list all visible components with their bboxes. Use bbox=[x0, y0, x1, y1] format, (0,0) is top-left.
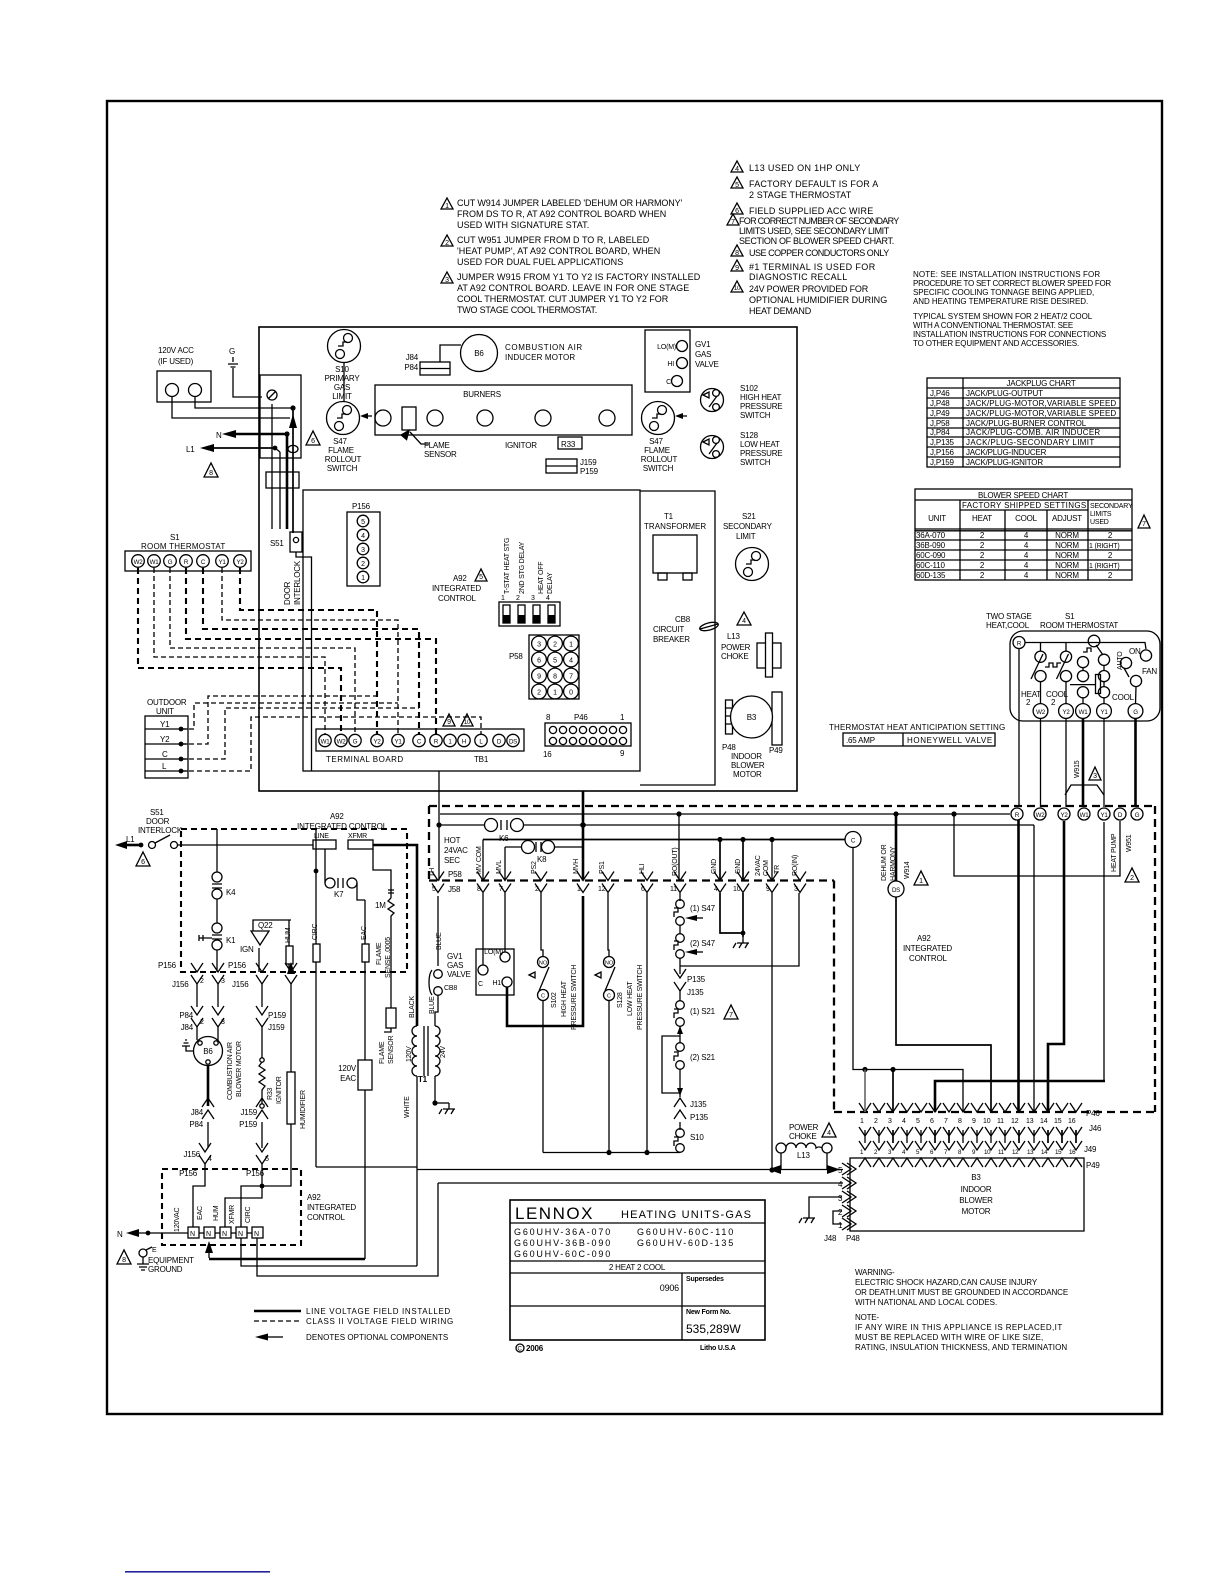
svg-text:ROLLOUT: ROLLOUT bbox=[641, 455, 678, 464]
svg-text:0: 0 bbox=[569, 690, 573, 697]
svg-text:3: 3 bbox=[445, 277, 449, 284]
svg-text:NORM: NORM bbox=[1055, 561, 1079, 570]
svg-text:ELECTRIC SHOCK HAZARD,CAN CAUS: ELECTRIC SHOCK HAZARD,CAN CAUSE INJURY bbox=[855, 1278, 1038, 1287]
svg-text:6: 6 bbox=[141, 859, 145, 866]
svg-text:HEAT: HEAT bbox=[1021, 690, 1041, 699]
svg-text:USED WITH SIGNATURE STAT.: USED WITH SIGNATURE STAT. bbox=[457, 220, 589, 230]
svg-text:New Form No.: New Form No. bbox=[686, 1309, 731, 1316]
svg-text:HLI: HLI bbox=[639, 863, 646, 874]
svg-text:W2: W2 bbox=[134, 559, 144, 566]
svg-text:INTEGRATED: INTEGRATED bbox=[903, 944, 952, 953]
svg-text:24V: 24V bbox=[440, 1046, 447, 1058]
svg-text:J46: J46 bbox=[1089, 1124, 1102, 1133]
svg-text:P48: P48 bbox=[722, 743, 736, 752]
svg-text:1: 1 bbox=[553, 690, 557, 697]
svg-text:7: 7 bbox=[731, 219, 735, 226]
svg-text:JUMPER W915 FROM Y1 TO Y2 IS F: JUMPER W915 FROM Y1 TO Y2 IS FACTORY INS… bbox=[457, 272, 701, 282]
svg-text:N: N bbox=[222, 1231, 227, 1238]
svg-text:(1) S21: (1) S21 bbox=[690, 1007, 716, 1016]
svg-text:C: C bbox=[541, 994, 545, 1000]
svg-text:W2: W2 bbox=[1036, 812, 1046, 819]
svg-text:RATING, INSULATION THICKNESS,: RATING, INSULATION THICKNESS, AND TERMIN… bbox=[855, 1343, 1067, 1352]
svg-text:W2: W2 bbox=[337, 739, 347, 746]
svg-text:LO(M): LO(M) bbox=[484, 949, 503, 956]
svg-text:R33: R33 bbox=[561, 440, 576, 449]
svg-text:120V: 120V bbox=[406, 1046, 413, 1062]
svg-text:HEAT,COOL: HEAT,COOL bbox=[986, 621, 1030, 630]
svg-text:JACK/PLUG-SECONDARY LIMIT: JACK/PLUG-SECONDARY LIMIT bbox=[966, 438, 1094, 447]
svg-text:CHOKE: CHOKE bbox=[721, 652, 748, 661]
svg-text:J135: J135 bbox=[690, 1100, 707, 1109]
svg-text:T1: T1 bbox=[664, 512, 674, 521]
svg-text:DOOR: DOOR bbox=[283, 581, 292, 605]
svg-text:W2: W2 bbox=[1036, 709, 1046, 716]
svg-text:(IF USED): (IF USED) bbox=[158, 357, 194, 366]
svg-text:W1: W1 bbox=[1080, 812, 1090, 819]
svg-text:HEAT OFF: HEAT OFF bbox=[538, 562, 545, 594]
svg-text:JACK/PLUG-MOTOR,VARIABLE SPEED: JACK/PLUG-MOTOR,VARIABLE SPEED bbox=[966, 399, 1116, 408]
svg-text:P156: P156 bbox=[352, 502, 371, 511]
svg-text:12: 12 bbox=[598, 886, 606, 893]
svg-text:2: 2 bbox=[535, 886, 539, 893]
svg-text:3: 3 bbox=[1093, 773, 1097, 780]
svg-text:7: 7 bbox=[569, 674, 573, 681]
svg-text:10: 10 bbox=[983, 1118, 991, 1125]
svg-text:9: 9 bbox=[766, 886, 770, 893]
svg-text:HEAT DEMAND: HEAT DEMAND bbox=[749, 306, 812, 316]
svg-text:36B-090: 36B-090 bbox=[916, 541, 946, 550]
svg-text:Y2: Y2 bbox=[160, 735, 170, 744]
svg-text:ON: ON bbox=[1129, 647, 1141, 656]
svg-text:DELAY: DELAY bbox=[547, 572, 554, 594]
svg-text:BLOWER: BLOWER bbox=[731, 761, 765, 770]
svg-text:Y1: Y1 bbox=[395, 739, 403, 746]
svg-text:1 (RIGHT): 1 (RIGHT) bbox=[1089, 543, 1119, 550]
svg-text:11: 11 bbox=[998, 1149, 1005, 1156]
svg-text:VALVE: VALVE bbox=[447, 970, 471, 979]
svg-text:DENOTES OPTIONAL COMPONENTS: DENOTES OPTIONAL COMPONENTS bbox=[306, 1333, 448, 1342]
svg-text:P46: P46 bbox=[574, 713, 588, 722]
svg-text:8: 8 bbox=[553, 674, 557, 681]
svg-text:K4: K4 bbox=[226, 888, 236, 897]
svg-text:HIGH HEAT: HIGH HEAT bbox=[740, 393, 781, 402]
svg-text:CUT W951 JUMPER FROM D TO R, L: CUT W951 JUMPER FROM D TO R, LABELED bbox=[457, 235, 650, 245]
svg-text:HI: HI bbox=[667, 361, 674, 368]
svg-text:BLUE: BLUE bbox=[429, 996, 436, 1014]
svg-text:INDUCER MOTOR: INDUCER MOTOR bbox=[505, 353, 575, 362]
svg-text:TERMINAL BOARD: TERMINAL BOARD bbox=[326, 755, 403, 764]
svg-text:FLAME: FLAME bbox=[328, 446, 354, 455]
svg-text:9: 9 bbox=[735, 265, 739, 272]
svg-text:J48: J48 bbox=[824, 1234, 837, 1243]
svg-text:2ND STG DELAY: 2ND STG DELAY bbox=[519, 541, 526, 594]
svg-text:10: 10 bbox=[733, 886, 741, 893]
svg-text:SWITCH: SWITCH bbox=[740, 458, 771, 467]
svg-text:36A-070: 36A-070 bbox=[916, 531, 946, 540]
svg-text:W1: W1 bbox=[321, 739, 331, 746]
svg-text:CLASS II VOLTAGE FIELD WIRING: CLASS II VOLTAGE FIELD WIRING bbox=[306, 1317, 453, 1326]
svg-text:INTERLOCK: INTERLOCK bbox=[293, 560, 302, 605]
svg-text:SWITCH: SWITCH bbox=[327, 464, 358, 473]
svg-text:5: 5 bbox=[432, 886, 436, 893]
svg-text:J84: J84 bbox=[181, 1023, 194, 1032]
svg-text:8: 8 bbox=[122, 1257, 126, 1264]
svg-text:Y2: Y2 bbox=[1063, 709, 1071, 716]
svg-text:4: 4 bbox=[735, 166, 739, 173]
svg-text:S47: S47 bbox=[333, 437, 347, 446]
svg-text:3: 3 bbox=[531, 595, 535, 602]
svg-text:XFMR: XFMR bbox=[229, 1205, 236, 1224]
svg-text:J159: J159 bbox=[240, 1108, 257, 1117]
svg-text:P159: P159 bbox=[580, 467, 599, 476]
svg-text:BLACK: BLACK bbox=[409, 996, 416, 1018]
svg-text:LOW HEAT: LOW HEAT bbox=[740, 440, 780, 449]
svg-text:C: C bbox=[518, 1347, 523, 1353]
svg-text:INDOOR: INDOOR bbox=[961, 1185, 992, 1194]
svg-text:5: 5 bbox=[361, 519, 365, 526]
svg-text:5: 5 bbox=[479, 574, 483, 581]
svg-text:RO(OUT): RO(OUT) bbox=[672, 847, 679, 876]
svg-text:FLAME: FLAME bbox=[424, 441, 450, 450]
svg-text:ROOM THERMOSTAT: ROOM THERMOSTAT bbox=[141, 542, 225, 551]
svg-text:4: 4 bbox=[546, 595, 550, 602]
svg-text:0906: 0906 bbox=[660, 1283, 679, 1293]
svg-text:MV COM: MV COM bbox=[476, 846, 483, 874]
svg-text:S47: S47 bbox=[649, 437, 663, 446]
svg-text:K6: K6 bbox=[499, 834, 509, 843]
svg-text:SWITCH: SWITCH bbox=[740, 411, 771, 420]
svg-text:DIAGNOSTIC RECALL: DIAGNOSTIC RECALL bbox=[749, 272, 847, 282]
svg-text:JACK/PLUG-OUTPUT: JACK/PLUG-OUTPUT bbox=[966, 389, 1043, 398]
svg-text:DEHUM OR: DEHUM OR bbox=[881, 844, 888, 881]
svg-text:2: 2 bbox=[537, 690, 541, 697]
svg-text:2: 2 bbox=[361, 561, 365, 568]
svg-text:C: C bbox=[607, 994, 611, 1000]
svg-text:E: E bbox=[152, 1247, 157, 1254]
svg-text:4: 4 bbox=[569, 658, 573, 665]
svg-text:THERMOSTAT HEAT ANTICIPATION S: THERMOSTAT HEAT ANTICIPATION SETTING bbox=[829, 723, 1005, 732]
svg-text:11: 11 bbox=[670, 886, 677, 893]
svg-text:GAS: GAS bbox=[447, 961, 463, 970]
svg-text:P159: P159 bbox=[239, 1120, 258, 1129]
svg-text:INDOOR: INDOOR bbox=[731, 752, 762, 761]
svg-text:INSTALLATION INSTRUCTIONS FOR: INSTALLATION INSTRUCTIONS FOR CONNECTION… bbox=[913, 330, 1106, 339]
svg-text:T-STAT HEAT STG: T-STAT HEAT STG bbox=[504, 538, 511, 594]
svg-text:LIMIT: LIMIT bbox=[332, 392, 352, 401]
svg-text:120V ACC: 120V ACC bbox=[158, 346, 194, 355]
svg-text:12: 12 bbox=[1011, 1118, 1019, 1125]
svg-text:S102: S102 bbox=[551, 992, 558, 1008]
svg-text:5: 5 bbox=[916, 1118, 920, 1125]
svg-text:LIMIT: LIMIT bbox=[736, 532, 756, 541]
svg-text:2 STAGE THERMOSTAT: 2 STAGE THERMOSTAT bbox=[749, 190, 852, 200]
svg-text:GAS: GAS bbox=[695, 350, 711, 359]
svg-text:SENSE .0005: SENSE .0005 bbox=[385, 937, 392, 978]
svg-text:16: 16 bbox=[1068, 1118, 1076, 1125]
svg-text:WITH NATIONAL AND LOCAL CODES.: WITH NATIONAL AND LOCAL CODES. bbox=[855, 1298, 997, 1307]
svg-text:SECTION OF BLOWER SPEED CHART.: SECTION OF BLOWER SPEED CHART. bbox=[739, 236, 894, 246]
svg-text:K1: K1 bbox=[226, 936, 236, 945]
svg-text:DOOR: DOOR bbox=[146, 817, 170, 826]
svg-text:120VAC: 120VAC bbox=[174, 1208, 181, 1232]
svg-text:1M: 1M bbox=[375, 901, 386, 910]
svg-text:8: 8 bbox=[477, 886, 481, 893]
svg-text:R33: R33 bbox=[267, 1087, 274, 1100]
svg-text:11: 11 bbox=[997, 1118, 1004, 1125]
svg-text:W914: W914 bbox=[904, 861, 911, 879]
svg-text:J,P49: J,P49 bbox=[930, 409, 950, 418]
svg-text:NO: NO bbox=[539, 961, 548, 967]
svg-text:6: 6 bbox=[311, 438, 315, 445]
svg-text:P58: P58 bbox=[509, 652, 523, 661]
svg-text:HONEYWELL VALVE: HONEYWELL VALVE bbox=[907, 736, 992, 745]
svg-text:14: 14 bbox=[1040, 1118, 1048, 1125]
svg-text:7: 7 bbox=[499, 886, 503, 893]
svg-text:AT A92 CONTROL BOARD. LEAVE IN: AT A92 CONTROL BOARD. LEAVE IN FOR ONE S… bbox=[457, 283, 689, 293]
svg-text:7: 7 bbox=[944, 1118, 948, 1125]
svg-text:J135: J135 bbox=[687, 988, 704, 997]
svg-text:L13 USED ON 1HP ONLY: L13 USED ON 1HP ONLY bbox=[749, 163, 860, 173]
svg-text:S10: S10 bbox=[335, 365, 349, 374]
svg-text:OR DEATH.UNIT MUST BE GROUNDED: OR DEATH.UNIT MUST BE GROUNDED IN ACCORD… bbox=[855, 1288, 1068, 1297]
svg-text:2: 2 bbox=[874, 1118, 878, 1125]
svg-text:GND: GND bbox=[735, 859, 742, 874]
svg-text:9: 9 bbox=[537, 674, 541, 681]
svg-text:COMBUSTION AIR: COMBUSTION AIR bbox=[505, 343, 582, 352]
svg-text:60C-110: 60C-110 bbox=[916, 561, 945, 570]
svg-text:N: N bbox=[117, 1230, 123, 1239]
svg-text:S102: S102 bbox=[740, 384, 759, 393]
svg-text:HOT: HOT bbox=[444, 836, 461, 845]
svg-text:J,P58: J,P58 bbox=[930, 419, 950, 428]
svg-text:UNIT: UNIT bbox=[928, 514, 946, 523]
svg-text:120V: 120V bbox=[338, 1064, 357, 1073]
svg-text:G: G bbox=[1135, 812, 1140, 819]
svg-text:LO(M): LO(M) bbox=[657, 344, 676, 351]
svg-text:JACK/PLUG-BURNER CONTROL: JACK/PLUG-BURNER CONTROL bbox=[966, 419, 1087, 428]
svg-text:P84: P84 bbox=[189, 1120, 203, 1129]
svg-text:JACK/PLUG-INDUCER: JACK/PLUG-INDUCER bbox=[966, 448, 1047, 457]
svg-text:P58: P58 bbox=[448, 870, 462, 879]
svg-text:PROCEDURE TO SET CORRECT BLOWE: PROCEDURE TO SET CORRECT BLOWER SPEED FO… bbox=[913, 279, 1111, 288]
svg-text:6: 6 bbox=[641, 886, 645, 893]
svg-text:WHITE: WHITE bbox=[404, 1096, 411, 1118]
svg-text:4: 4 bbox=[827, 1130, 831, 1137]
svg-text:LINE VOLTAGE FIELD INSTALLED: LINE VOLTAGE FIELD INSTALLED bbox=[306, 1307, 450, 1316]
svg-text:BLOWER: BLOWER bbox=[959, 1196, 993, 1205]
svg-text:6: 6 bbox=[735, 208, 739, 215]
svg-text:XFMR: XFMR bbox=[348, 833, 367, 840]
svg-text:HEAT: HEAT bbox=[972, 514, 992, 523]
svg-text:P135: P135 bbox=[687, 975, 706, 984]
svg-text:INTERLOCK: INTERLOCK bbox=[138, 826, 183, 835]
svg-text:1: 1 bbox=[577, 886, 581, 893]
svg-text:P46: P46 bbox=[1086, 1109, 1100, 1118]
svg-text:P156: P156 bbox=[158, 961, 177, 970]
svg-text:10: 10 bbox=[734, 285, 741, 292]
svg-text:IGNITOR: IGNITOR bbox=[276, 1076, 283, 1104]
svg-text:N: N bbox=[206, 1231, 211, 1238]
svg-text:TWO STAGE COOL THERMOSTAT.: TWO STAGE COOL THERMOSTAT. bbox=[457, 305, 597, 315]
svg-text:POWER: POWER bbox=[721, 643, 751, 652]
svg-text:LIMITS: LIMITS bbox=[1090, 511, 1112, 518]
svg-text:LENNOX: LENNOX bbox=[515, 1204, 594, 1223]
svg-text:CIRC: CIRC bbox=[245, 1207, 252, 1223]
svg-text:FOR CORRECT NUMBER OF SECONDAR: FOR CORRECT NUMBER OF SECONDARY bbox=[739, 216, 899, 226]
svg-text:Q22: Q22 bbox=[258, 921, 273, 930]
svg-text:COOL THERMOSTAT. CUT JUMPER Y1: COOL THERMOSTAT. CUT JUMPER Y1 TO Y2 FOR bbox=[457, 294, 669, 304]
svg-text:10: 10 bbox=[984, 1149, 991, 1156]
svg-text:GAS: GAS bbox=[334, 383, 350, 392]
svg-text:3: 3 bbox=[537, 642, 541, 649]
svg-text:G: G bbox=[1133, 709, 1138, 716]
svg-text:9: 9 bbox=[972, 1118, 976, 1125]
svg-text:P156: P156 bbox=[228, 961, 247, 970]
svg-text:L13: L13 bbox=[797, 1151, 810, 1160]
svg-text:CONTROL: CONTROL bbox=[307, 1213, 345, 1222]
svg-text:NORM: NORM bbox=[1055, 531, 1079, 540]
svg-text:GV1: GV1 bbox=[695, 340, 711, 349]
svg-text:J,P156: J,P156 bbox=[930, 448, 954, 457]
svg-text:Y1: Y1 bbox=[1101, 709, 1109, 716]
svg-text:TWO STAGE: TWO STAGE bbox=[986, 612, 1032, 621]
svg-text:P159: P159 bbox=[268, 1011, 287, 1020]
svg-text:60C-090: 60C-090 bbox=[916, 551, 946, 560]
svg-text:AND HEATING TEMPERATURE RISE D: AND HEATING TEMPERATURE RISE DESIRED. bbox=[913, 297, 1088, 306]
svg-text:FLAME: FLAME bbox=[379, 1041, 386, 1064]
svg-text:INTEGRATED: INTEGRATED bbox=[307, 1203, 356, 1212]
svg-text:W1: W1 bbox=[150, 559, 160, 566]
svg-text:BLOWER MOTOR: BLOWER MOTOR bbox=[236, 1041, 243, 1097]
svg-text:MOTOR: MOTOR bbox=[733, 770, 762, 779]
svg-text:SECONDARY: SECONDARY bbox=[1090, 503, 1133, 510]
svg-text:TB1: TB1 bbox=[474, 755, 489, 764]
svg-text:C: C bbox=[666, 379, 671, 386]
svg-text:OUTDOOR: OUTDOOR bbox=[147, 698, 187, 707]
svg-text:LOW HEAT: LOW HEAT bbox=[627, 981, 634, 1016]
svg-text:J159: J159 bbox=[268, 1023, 285, 1032]
svg-text:7: 7 bbox=[1142, 521, 1146, 528]
svg-text:2: 2 bbox=[1130, 875, 1134, 882]
svg-text:DS: DS bbox=[509, 739, 517, 746]
svg-text:J,P135: J,P135 bbox=[930, 438, 954, 447]
svg-text:2 HEAT 2 COOL: 2 HEAT 2 COOL bbox=[609, 1263, 666, 1272]
svg-text:8: 8 bbox=[958, 1118, 962, 1125]
svg-text:B6: B6 bbox=[203, 1047, 213, 1056]
svg-text:IGNITOR: IGNITOR bbox=[505, 441, 537, 450]
svg-text:60D-135: 60D-135 bbox=[916, 571, 946, 580]
svg-text:CB8: CB8 bbox=[444, 985, 457, 992]
svg-text:2006: 2006 bbox=[526, 1344, 544, 1353]
svg-text:L13: L13 bbox=[727, 632, 740, 641]
svg-text:CUT W914 JUMPER LABELED 'DEHUM: CUT W914 JUMPER LABELED 'DEHUM OR HARMON… bbox=[457, 198, 682, 208]
svg-text:S10: S10 bbox=[690, 1133, 704, 1142]
svg-text:1: 1 bbox=[919, 878, 923, 885]
svg-text:HEATING UNITS-GAS: HEATING UNITS-GAS bbox=[621, 1209, 751, 1221]
svg-text:4: 4 bbox=[714, 886, 718, 893]
svg-text:A92: A92 bbox=[330, 812, 344, 821]
svg-text:NOTE-: NOTE- bbox=[855, 1313, 879, 1322]
svg-text:G: G bbox=[353, 739, 358, 746]
svg-text:FACTORY DEFAULT IS FOR A: FACTORY DEFAULT IS FOR A bbox=[749, 179, 878, 189]
svg-text:Litho U.S.A: Litho U.S.A bbox=[700, 1345, 736, 1352]
svg-text:4: 4 bbox=[361, 533, 365, 540]
svg-text:NORM: NORM bbox=[1055, 541, 1079, 550]
svg-text:15: 15 bbox=[1054, 1118, 1062, 1125]
svg-text:P84: P84 bbox=[404, 363, 418, 372]
svg-text:FLAME: FLAME bbox=[644, 446, 670, 455]
svg-text:WARNING-: WARNING- bbox=[855, 1268, 895, 1277]
svg-text:CIRCUIT: CIRCUIT bbox=[653, 625, 684, 634]
svg-text:MUST BE REPLACED WITH WIRE OF: MUST BE REPLACED WITH WIRE OF LIKE SIZE, bbox=[855, 1333, 1043, 1342]
svg-text:4: 4 bbox=[902, 1118, 906, 1125]
svg-text:Y1: Y1 bbox=[219, 559, 227, 566]
svg-text:P49: P49 bbox=[1086, 1161, 1100, 1170]
svg-text:VALVE: VALVE bbox=[695, 360, 719, 369]
svg-text:EQUIPMENT: EQUIPMENT bbox=[148, 1256, 194, 1265]
svg-text:HIGH HEAT: HIGH HEAT bbox=[561, 980, 568, 1017]
svg-text:12: 12 bbox=[1012, 1149, 1019, 1156]
svg-text:SECONDARY: SECONDARY bbox=[723, 522, 773, 531]
svg-text:16: 16 bbox=[543, 750, 552, 759]
svg-text:SENSOR: SENSOR bbox=[424, 450, 457, 459]
svg-text:UNIT: UNIT bbox=[156, 707, 174, 716]
svg-text:SWITCH: SWITCH bbox=[643, 464, 674, 473]
svg-text:9: 9 bbox=[447, 719, 451, 726]
svg-text:COMBUSTION AIR: COMBUSTION AIR bbox=[227, 1042, 234, 1100]
svg-text:3: 3 bbox=[221, 978, 225, 985]
svg-text:8: 8 bbox=[735, 250, 739, 257]
svg-text:5: 5 bbox=[553, 658, 557, 665]
svg-text:1: 1 bbox=[445, 203, 449, 210]
svg-text:2: 2 bbox=[553, 642, 557, 649]
svg-text:G: G bbox=[168, 559, 173, 566]
svg-text:J58: J58 bbox=[448, 885, 461, 894]
svg-text:SEC: SEC bbox=[444, 856, 460, 865]
svg-text:NORM: NORM bbox=[1055, 571, 1079, 580]
svg-text:(1) S47: (1) S47 bbox=[690, 904, 716, 913]
svg-text:1: 1 bbox=[569, 642, 573, 649]
svg-text:J84: J84 bbox=[406, 353, 419, 362]
svg-text:S51: S51 bbox=[150, 808, 164, 817]
svg-text:Y2: Y2 bbox=[374, 739, 382, 746]
svg-text:CONTROL: CONTROL bbox=[438, 594, 476, 603]
svg-text:10: 10 bbox=[464, 719, 471, 726]
svg-text:J,P48: J,P48 bbox=[930, 399, 950, 408]
svg-text:535,289W: 535,289W bbox=[686, 1322, 741, 1336]
svg-text:2: 2 bbox=[200, 978, 204, 985]
svg-text:(2) S47: (2) S47 bbox=[690, 939, 716, 948]
svg-text:A92: A92 bbox=[307, 1193, 321, 1202]
svg-text:16: 16 bbox=[1069, 1149, 1076, 1156]
svg-text:NORM: NORM bbox=[1055, 551, 1079, 560]
svg-text:TYPICAL SYSTEM SHOWN FOR 2 HEA: TYPICAL SYSTEM SHOWN FOR 2 HEAT/2 COOL bbox=[913, 312, 1093, 321]
svg-text:GV1: GV1 bbox=[447, 952, 463, 961]
svg-text:IGN: IGN bbox=[240, 945, 254, 954]
svg-text:J156: J156 bbox=[232, 980, 249, 989]
svg-text:IF ANY WIRE IN THIS APPLIANCE: IF ANY WIRE IN THIS APPLIANCE IS REPLACE… bbox=[855, 1323, 1062, 1332]
svg-text:3: 3 bbox=[361, 547, 365, 554]
svg-text:ADJUST: ADJUST bbox=[1052, 514, 1082, 523]
svg-text:FROM DS TO R, AT A92 CONTROL B: FROM DS TO R, AT A92 CONTROL BOARD WHEN bbox=[457, 209, 666, 219]
svg-text:PRESSURE SWITCH: PRESSURE SWITCH bbox=[637, 965, 644, 1030]
svg-text:ROOM THERMOSTAT: ROOM THERMOSTAT bbox=[1040, 621, 1118, 630]
svg-text:S21: S21 bbox=[742, 512, 756, 521]
svg-text:13: 13 bbox=[1027, 1149, 1034, 1156]
svg-text:N: N bbox=[216, 431, 222, 440]
svg-text:BREAKER: BREAKER bbox=[653, 635, 690, 644]
svg-text:Y1: Y1 bbox=[160, 720, 170, 729]
